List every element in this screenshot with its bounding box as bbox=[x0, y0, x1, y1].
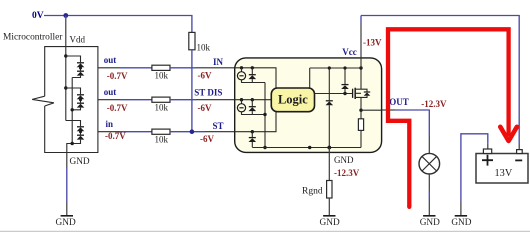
ground battery bbox=[451, 216, 471, 228]
svg-text:-6V: -6V bbox=[198, 71, 212, 81]
node center clamp top dot bbox=[328, 66, 331, 69]
label -6V row2 bbox=[198, 103, 212, 113]
node tap1 dot bbox=[64, 54, 67, 57]
wire rgnd to gnd bbox=[328, 198, 330, 216]
break symbol on box edge bbox=[32, 96, 54, 106]
wire vcc rail to gnd under logic bbox=[309, 68, 311, 148]
svg-text:0V: 0V bbox=[32, 11, 44, 21]
label 10k R4 bbox=[197, 42, 211, 52]
node Vss rail dot 1 bbox=[71, 108, 74, 111]
label 13V bbox=[495, 168, 513, 179]
battery plus sign bbox=[482, 155, 493, 166]
svg-text:out: out bbox=[104, 87, 117, 97]
wire lamp to gnd bbox=[428, 174, 430, 216]
ground rgnd bbox=[320, 216, 340, 228]
svg-text:in: in bbox=[106, 119, 114, 129]
transistor Q1 stubs bbox=[355, 89, 361, 97]
diode D2b clamp to Vss bbox=[77, 103, 85, 107]
label 10k R1 bbox=[155, 70, 169, 80]
wire D2b anode bbox=[72, 108, 80, 110]
svg-text:out: out bbox=[104, 55, 117, 65]
current source CS2 bbox=[237, 100, 265, 115]
wire pin3 junction bbox=[79, 130, 82, 134]
svg-text:-0.7V: -0.7V bbox=[105, 131, 126, 141]
svg-text:10k: 10k bbox=[155, 102, 169, 112]
label -6V row1 bbox=[198, 71, 212, 81]
wire IN net bbox=[170, 67, 235, 69]
label -0.7V row1 bbox=[107, 71, 128, 81]
label Vdd bbox=[70, 34, 86, 44]
svg-text:-6V: -6V bbox=[200, 134, 214, 144]
diode D2a clamp to Vdd bbox=[77, 95, 85, 99]
lamp L1 bbox=[419, 153, 440, 174]
wire red arrowhead bbox=[500, 127, 517, 141]
node out dot bbox=[359, 109, 362, 112]
node STDIS dot a bbox=[240, 98, 243, 101]
wire IC internal under logic: IN drop bbox=[235, 68, 276, 132]
ground mcu bbox=[56, 216, 76, 228]
node ST junction dot bbox=[190, 129, 195, 134]
diode D1a clamp to Vdd bbox=[77, 63, 85, 67]
resistor R4 10k pulldown bbox=[189, 32, 195, 49]
label Vcc bbox=[342, 47, 357, 57]
svg-text:GND: GND bbox=[56, 218, 76, 228]
battery BT1 body bbox=[476, 154, 528, 184]
diode D8 center clamp bbox=[326, 68, 334, 148]
logic block bbox=[271, 88, 314, 112]
wire gate line bbox=[314, 93, 352, 95]
node gate diode top dot bbox=[343, 66, 346, 69]
wire Vdd drop bbox=[65, 16, 67, 47]
label GND mcu pin bbox=[70, 157, 90, 167]
wire battery plus to gnd bbox=[461, 134, 488, 216]
wire Vdd internal bbox=[65, 47, 67, 121]
node vcc drain dot bbox=[359, 66, 362, 69]
label -0.7V row2 bbox=[107, 103, 128, 113]
resistor R3 10k bbox=[152, 129, 170, 134]
wire ST DIS into logic bbox=[235, 99, 272, 101]
node gate dot bbox=[343, 92, 346, 95]
wire 0V rail bbox=[44, 16, 192, 33]
diode D5 input clamp bbox=[249, 100, 257, 115]
node clamp rail dot1 bbox=[263, 113, 266, 116]
svg-text:GND: GND bbox=[420, 218, 440, 228]
wire pin2 junction bbox=[79, 98, 82, 102]
diode D7 gate clamp bbox=[341, 68, 349, 94]
svg-text:Vdd: Vdd bbox=[70, 34, 86, 44]
wire battery loop blue bbox=[361, 16, 519, 150]
diode D1b clamp to Vss bbox=[77, 71, 85, 75]
wire ST DIS net bbox=[170, 99, 235, 101]
battery minus sign bbox=[515, 159, 522, 161]
wire mcu gnd bbox=[66, 153, 68, 216]
wire tap1 bbox=[66, 56, 81, 62]
wire out2 pin stub bbox=[98, 99, 152, 101]
wire D1b anode bbox=[72, 76, 80, 78]
resistor R2 10k bbox=[152, 97, 170, 102]
wire red annotation current path bbox=[388, 29, 509, 209]
transistor Q1 mosfet gate bar bbox=[352, 89, 354, 98]
wire tap3 bbox=[66, 121, 81, 127]
wire D3b anode bbox=[72, 140, 80, 144]
svg-text:Rgnd: Rgnd bbox=[302, 187, 323, 197]
wire in3 pin stub bbox=[98, 131, 152, 133]
node tap2 dot bbox=[64, 86, 67, 89]
wire out1 pin stub bbox=[98, 67, 152, 69]
node ST dot bbox=[251, 130, 254, 133]
label ST bbox=[213, 121, 224, 131]
page divider line bbox=[0, 230, 530, 232]
svg-text:GND: GND bbox=[334, 155, 354, 165]
wire IC gnd rail bbox=[252, 147, 361, 149]
battery terminal minus tab bbox=[517, 150, 523, 154]
svg-text:GND: GND bbox=[70, 157, 90, 167]
current source CS1 bbox=[237, 68, 265, 83]
label GND ic pin bbox=[334, 155, 354, 165]
wire IN inside IC bbox=[235, 68, 276, 88]
op-amp U2 driver IC body bbox=[235, 58, 382, 152]
wire pin1 junction bbox=[79, 67, 82, 71]
label ST DIS bbox=[194, 88, 222, 98]
label IN bbox=[213, 57, 224, 67]
transistor Q1 mosfet channel bar bbox=[354, 88, 356, 99]
svg-text:ST: ST bbox=[213, 121, 224, 131]
resistor R1 10k bbox=[152, 65, 170, 70]
svg-text:10k: 10k bbox=[197, 42, 211, 52]
microcontroller label bbox=[3, 32, 63, 42]
wire source bbox=[360, 97, 362, 110]
label -13V bbox=[363, 38, 382, 48]
label Rgnd bbox=[302, 187, 323, 197]
wire out inside IC bbox=[361, 109, 382, 111]
diode D3b clamp to Vss bbox=[77, 135, 85, 139]
label out1 bbox=[104, 55, 117, 65]
node Vss rail dot 2 bbox=[71, 142, 74, 145]
svg-text:-13V: -13V bbox=[363, 38, 382, 48]
wire OUT net bbox=[382, 110, 430, 153]
wire drain bbox=[360, 68, 362, 89]
wire tap2 bbox=[66, 88, 81, 94]
wire ST inside IC bbox=[235, 112, 276, 132]
svg-text:-0.7V: -0.7V bbox=[107, 103, 128, 113]
diode D6 input clamp bbox=[249, 132, 257, 148]
resistor R5 internal bbox=[358, 110, 363, 147]
node IN dot b bbox=[251, 66, 254, 69]
svg-text:10k: 10k bbox=[155, 70, 169, 80]
wire Vss rail internal bbox=[67, 78, 72, 153]
label 10k R3 bbox=[155, 134, 169, 144]
svg-text:10k: 10k bbox=[155, 134, 169, 144]
label -6V row3 bbox=[200, 134, 214, 144]
wire R4 to ST bbox=[191, 50, 193, 132]
diode D3a clamp to Vdd bbox=[77, 127, 85, 131]
label -12.3V top bbox=[421, 99, 447, 109]
node IN dot a bbox=[240, 66, 243, 69]
svg-text:-0.7V: -0.7V bbox=[107, 71, 128, 81]
svg-text:-12.3V: -12.3V bbox=[421, 99, 447, 109]
battery terminal plus tab bbox=[483, 149, 491, 154]
microcontroller box U1 bbox=[45, 47, 98, 153]
svg-text:Vcc: Vcc bbox=[342, 47, 357, 57]
svg-text:13V: 13V bbox=[495, 168, 513, 179]
node junction dot 0V/Vdd bbox=[63, 13, 68, 18]
node center clamp bottom dot bbox=[327, 146, 331, 150]
wire vcc entry bbox=[360, 16, 362, 69]
node clamp rail dot2 bbox=[263, 146, 266, 149]
label 10k R2 bbox=[155, 102, 169, 112]
svg-text:-12.3V: -12.3V bbox=[334, 168, 360, 178]
wire ST net bbox=[170, 131, 235, 133]
svg-text:GND: GND bbox=[320, 218, 340, 228]
wire vcc rail into logic bbox=[309, 68, 311, 88]
svg-text:Logic: Logic bbox=[278, 93, 308, 107]
ground lamp bbox=[420, 216, 440, 228]
diode D9 body diode bbox=[361, 89, 370, 97]
wire ST DIS inside IC bbox=[235, 99, 272, 101]
svg-text:OUT: OUT bbox=[389, 97, 409, 107]
node STDIS dot b bbox=[251, 98, 254, 101]
svg-text:GND: GND bbox=[451, 218, 471, 228]
diode D4 input clamp bbox=[249, 68, 257, 83]
wire gnd pin to rgnd bbox=[328, 148, 330, 181]
wire vcc rail bbox=[310, 67, 361, 69]
svg-text:-6V: -6V bbox=[198, 103, 212, 113]
label -12.3V bottom bbox=[334, 168, 360, 178]
svg-text:Microcontroller: Microcontroller bbox=[3, 32, 63, 42]
resistor Rgnd bbox=[327, 181, 332, 199]
node 0V label bbox=[32, 11, 44, 21]
wire clamp rail vertical bbox=[264, 83, 266, 148]
label -0.7V row3 bbox=[105, 131, 126, 141]
svg-text:ST DIS: ST DIS bbox=[194, 88, 222, 98]
svg-text:IN: IN bbox=[213, 57, 224, 67]
label out2 bbox=[104, 87, 117, 97]
node gnd rail dot logic bbox=[308, 146, 311, 149]
label OUT bbox=[389, 97, 409, 107]
label in3 bbox=[106, 119, 114, 129]
